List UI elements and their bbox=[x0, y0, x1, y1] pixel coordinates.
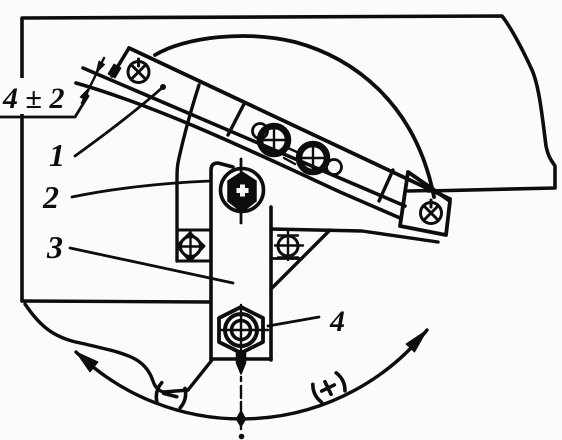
body panel bottom edge near cap bbox=[408, 189, 430, 193]
right arrowhead bbox=[406, 330, 427, 352]
bolt 4 stem bbox=[237, 351, 246, 374]
slot end circle upper bbox=[253, 124, 268, 139]
svg-text:2: 2 bbox=[42, 179, 59, 215]
svg-text:4 ± 2: 4 ± 2 bbox=[2, 82, 64, 115]
lever bar 1 top edge bbox=[129, 48, 450, 199]
svg-text:3: 3 bbox=[46, 229, 63, 265]
slot tangent lines bbox=[284, 148, 299, 164]
dimension arrow bottom bbox=[80, 88, 89, 101]
plus direction label bbox=[311, 372, 348, 404]
fan sector 45deg edge bbox=[271, 230, 330, 289]
bolt 4 inner circle bbox=[232, 321, 251, 340]
plate 3 left edge bbox=[211, 163, 233, 360]
body edge diagonal to plate corner bbox=[188, 360, 212, 390]
fan sector bottom edge bbox=[271, 229, 438, 242]
fan sector arc bbox=[155, 36, 434, 197]
minus direction label bbox=[154, 382, 187, 408]
leader line 3 bbox=[70, 248, 233, 283]
plate 3 right edge bbox=[269, 207, 273, 360]
left arrowhead bbox=[76, 352, 98, 372]
lever bar 1 left end edge bbox=[112, 48, 129, 76]
leader line 2 bbox=[72, 181, 211, 197]
plate 3 bottom edge bbox=[211, 357, 271, 361]
rotation arc bbox=[76, 330, 427, 419]
centerline dot below bbox=[239, 434, 245, 440]
pivot 2 circle bbox=[221, 169, 264, 212]
slot screw 2 bbox=[298, 143, 328, 173]
lever bar 1 bottom edge (line A) bbox=[83, 68, 405, 206]
dimension tick line bbox=[82, 58, 104, 103]
centerline diamond node bbox=[237, 411, 246, 427]
fan sector left edge (line B) bbox=[76, 83, 400, 218]
screw at bar left end bbox=[128, 59, 149, 83]
centerline dash-dot bbox=[240, 377, 242, 429]
bolt 4 crosshair bbox=[221, 305, 268, 353]
lever bar notch bbox=[108, 64, 121, 78]
right bolt strip bottom bbox=[271, 257, 302, 260]
pivot 2 nut white cross window bbox=[237, 185, 249, 197]
body bottom edge left bbox=[22, 301, 209, 302]
left bolt strip bbox=[177, 230, 211, 261]
dimension arrow top bbox=[96, 61, 105, 73]
lever bar end cap bbox=[400, 172, 450, 235]
body break wavy line bbox=[25, 304, 188, 392]
left bolt bbox=[177, 232, 204, 261]
label 4pm2 background bbox=[0, 78, 70, 114]
body outline top panel bbox=[22, 16, 555, 301]
leader line 1 end dot bbox=[160, 84, 166, 90]
slot screw 1 bbox=[259, 125, 289, 155]
slot end circle lower bbox=[327, 160, 342, 175]
leader line 4 bbox=[268, 317, 319, 326]
screw at bar end cap bbox=[421, 200, 442, 224]
pivot 2 hex nut bbox=[228, 172, 256, 212]
lever bar divider 2 bbox=[379, 170, 393, 201]
bolt 4 outer circle bbox=[225, 314, 257, 346]
right bolt bbox=[275, 230, 303, 260]
lever bar divider 1 bbox=[228, 104, 244, 135]
bolt 4 hexagon bbox=[219, 307, 263, 353]
pivot center marks bbox=[240, 159, 243, 223]
label 4pm2 underline and leader bbox=[0, 96, 88, 117]
svg-text:1: 1 bbox=[49, 137, 65, 173]
bracket left edge bbox=[177, 85, 199, 261]
svg-text:4: 4 bbox=[329, 305, 345, 338]
leader line 1 bbox=[75, 87, 163, 156]
